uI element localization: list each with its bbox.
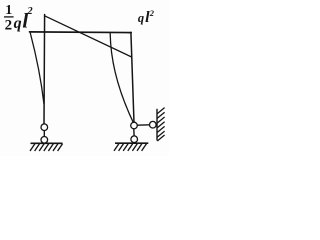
left support: ground line <box>31 142 63 144</box>
left support: link between hinges <box>43 130 45 136</box>
svg-text:2: 2 <box>5 17 13 33</box>
right support: ground hinge circle <box>131 136 138 143</box>
right support: vertical link to ground hinge <box>133 129 135 136</box>
moment curve on right column <box>110 34 133 122</box>
label: fraction 1/2 <box>5 3 13 33</box>
beam (top girder axis) <box>30 31 132 34</box>
right support: column hinge circle <box>131 122 138 129</box>
label: q l squared (left, value half q l^2) <box>14 6 34 33</box>
moment parabola on left column <box>30 33 44 104</box>
label: fraction bar <box>4 16 14 18</box>
svg-text:2: 2 <box>26 6 33 17</box>
right support: wall hatching <box>157 108 164 141</box>
label: q l squared (right, value q l^2) <box>138 8 155 26</box>
left support: ground hatching <box>30 144 63 151</box>
left support: upper hinge circle <box>41 124 48 131</box>
right column axis <box>131 32 134 122</box>
svg-text:q: q <box>138 11 144 25</box>
svg-text:q: q <box>14 15 22 32</box>
svg-text:2: 2 <box>149 8 155 18</box>
right support: ground hatching <box>114 144 147 151</box>
moment closing diagonal on beam <box>45 16 132 57</box>
left column axis with top ordinate tick <box>43 15 46 124</box>
left support: lower hinge circle <box>41 137 48 144</box>
svg-text:1: 1 <box>5 3 12 18</box>
right support: wall hinge circle <box>150 121 157 128</box>
right support: horizontal link bar <box>137 124 149 126</box>
right support: wall line <box>156 109 158 141</box>
right support: ground line <box>115 142 148 144</box>
